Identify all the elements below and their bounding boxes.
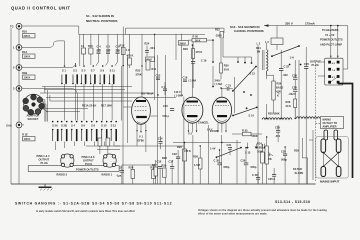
svg-text:C26: C26 (304, 62, 309, 66)
resistor R17 (101, 104, 112, 108)
svg-text:C 5: C 5 (106, 44, 111, 48)
resistor R28 (162, 156, 167, 160)
svg-text:S 7: S 7 (91, 69, 95, 73)
small parts row (81, 34, 93, 65)
resistor R24 (145, 42, 156, 57)
svg-text:R18: R18 (120, 44, 125, 48)
capacitor C21 (189, 79, 233, 91)
svg-text:S 1: S 1 (62, 69, 66, 73)
svg-text:R 20: R 20 (193, 34, 199, 38)
resistor R1E (22, 133, 35, 142)
svg-text:( 1·5MA: ( 1·5MA (174, 94, 183, 98)
switch S8 (91, 121, 98, 142)
svg-text:220 K: 220 K (24, 34, 31, 38)
resistor R36 (286, 99, 297, 118)
svg-text:R 33: R 33 (242, 129, 248, 133)
ground (39, 184, 53, 191)
svg-text:R27: R27 (152, 163, 157, 167)
resistor R1B (22, 71, 35, 80)
svg-text:C12: C12 (156, 74, 161, 78)
resistor R27 (152, 160, 157, 184)
input 3 (13, 86, 22, 92)
resistor R23 (136, 60, 151, 77)
capacitor C6 (115, 34, 120, 66)
svg-text:TR-EBLE: TR-EBLE (255, 146, 267, 150)
switch S12 (110, 121, 117, 142)
svg-text:R29: R29 (183, 47, 188, 51)
svg-text:470 K: 470 K (184, 149, 191, 153)
wire (19, 29, 24, 184)
svg-text:R28: R28 (162, 156, 167, 160)
svg-text:R36: R36 (286, 100, 291, 104)
resistor R21A (82, 104, 96, 108)
svg-text:S 4: S 4 (71, 124, 75, 128)
svg-text:1·4V: 1·4V (210, 147, 216, 151)
input TG (10, 23, 22, 29)
svg-text:In early models switch S12 and: In early models switch S12 and R, and sw… (36, 210, 135, 213)
switch S14 (232, 77, 258, 118)
resistor R24A (162, 164, 167, 178)
svg-text:BASS: BASS (276, 86, 283, 90)
wire (122, 48, 124, 184)
svg-text:C28: C28 (292, 86, 297, 90)
switch S1 (61, 65, 67, 84)
svg-text:S 9: S 9 (100, 69, 104, 73)
svg-text:S 10: S 10 (101, 124, 107, 128)
choke (262, 112, 292, 120)
inductor L2 (257, 42, 269, 80)
svg-text:EF86: EF86 (138, 139, 145, 143)
svg-text:·002: ·002 (283, 73, 289, 77)
wire (22, 63, 76, 68)
wire (309, 130, 313, 180)
switch S4 (71, 121, 78, 142)
output plug label (310, 60, 321, 68)
resistor R30 (220, 39, 230, 79)
resistor R36 (261, 145, 272, 184)
output plug radio2 (61, 154, 74, 167)
svg-text:C17: C17 (169, 160, 174, 164)
svg-text:C1: C1 (81, 44, 85, 48)
svg-text:1-H: 1-H (290, 56, 294, 60)
svg-text:C36: C36 (241, 159, 246, 163)
svg-text:390: 390 (97, 48, 102, 52)
wire (302, 138, 307, 184)
svg-text:60V 40mA: 60V 40mA (141, 92, 154, 96)
pot R34 treble (255, 137, 274, 184)
note early models (36, 210, 135, 213)
svg-text:V1 + V2: V1 + V2 (325, 33, 335, 37)
svg-text:100 K: 100 K (24, 76, 31, 80)
wire (316, 62, 332, 181)
label 14V (207, 128, 213, 132)
svg-text:GAA: GAA (6, 123, 12, 127)
svg-text:C 4: C 4 (97, 44, 102, 48)
svg-text:600p: 600p (224, 165, 230, 169)
resistor R29 (177, 143, 191, 185)
adaptor socket (23, 94, 45, 115)
svg-text:R39: R39 (294, 149, 299, 153)
switch S9 (99, 65, 105, 84)
svg-text:S 11: S 11 (110, 69, 116, 73)
wire (22, 26, 252, 66)
resistor R38 (193, 146, 202, 184)
svg-text:ADAPTOR: ADAPTOR (27, 114, 40, 118)
svg-text:C31: C31 (227, 143, 232, 147)
svg-text:OUTPUT: OUTPUT (310, 60, 321, 64)
wire (330, 26, 348, 69)
svg-text:R26: R26 (177, 145, 182, 149)
wire (65, 66, 122, 121)
svg-text:C38: C38 (292, 74, 297, 78)
svg-text:OUTLET TO: OUTLET TO (323, 121, 338, 125)
wire (165, 55, 167, 184)
svg-text:CANCEL POSITIONS: CANCEL POSITIONS (234, 29, 264, 33)
svg-text:R2b: R2b (162, 164, 167, 168)
label RADIO 1 (102, 172, 113, 176)
resistor R22A (106, 138, 110, 154)
wire (173, 142, 241, 144)
wire (221, 135, 223, 184)
svg-text:R1A: R1A (22, 50, 27, 54)
svg-text:S 14: S 14 (249, 114, 255, 118)
plug label pins (37, 154, 51, 165)
svg-text:340V: 340V (215, 79, 221, 83)
capacitor C30 (281, 147, 287, 184)
svg-text:S 5: S 5 (82, 69, 86, 73)
svg-text:R11: R11 (152, 67, 157, 71)
switch S13 (232, 66, 257, 92)
resistor R20 (188, 34, 213, 42)
switch S6 (81, 121, 88, 142)
svg-text:OUTPUT: OUTPUT (39, 158, 50, 162)
svg-text:PLUG: PLUG (312, 63, 319, 67)
wire (22, 89, 78, 121)
svg-text:370K: 370K (136, 73, 142, 77)
wire (181, 34, 183, 96)
svg-text:S 12: S 12 (111, 124, 117, 128)
wire (192, 135, 194, 184)
svg-text:C18: C18 (183, 76, 188, 80)
HT rail (264, 24, 348, 27)
svg-text:V 1: V 1 (139, 135, 143, 139)
note S13-S16 (230, 25, 264, 33)
label 1H (290, 56, 294, 60)
svg-text:S 2B: S 2B (61, 124, 67, 128)
svg-text:RADIO 1: RADIO 1 (102, 172, 113, 176)
capacitor C14 (158, 136, 163, 149)
mains input pins bottom (321, 167, 341, 177)
resistor R22 (215, 28, 224, 39)
svg-text:C 29: C 29 (252, 173, 258, 177)
wire (141, 33, 143, 35)
svg-text:S 8: S 8 (91, 124, 95, 128)
svg-text:RADIO 2: RADIO 2 (57, 172, 68, 176)
wire (40, 87, 176, 112)
wire (127, 55, 129, 143)
label 60V 40mA (141, 92, 154, 96)
svg-text:R17 10M: R17 10M (101, 104, 112, 108)
svg-text:AMPLIFIER: AMPLIFIER (323, 125, 337, 129)
wire (40, 87, 50, 122)
capacitor C22 (279, 50, 290, 118)
svg-text:C28: C28 (275, 126, 280, 130)
svg-text:PLUG: PLUG (85, 162, 92, 166)
wire (175, 34, 177, 60)
wire (86, 145, 184, 147)
svg-text:R41: R41 (256, 46, 261, 50)
svg-text:S 3: S 3 (73, 69, 77, 73)
input GAA (6, 122, 22, 128)
svg-text:R30: R30 (224, 64, 229, 68)
svg-text:1M: 1M (257, 50, 261, 54)
svg-text:470 K: 470 K (196, 50, 203, 54)
switch S18 (271, 45, 301, 65)
heavy cable (338, 84, 353, 179)
wire (213, 40, 252, 86)
plug2 label (82, 155, 96, 166)
inductor L3 (265, 26, 283, 50)
capacitor C25 (268, 168, 276, 184)
svg-text:FILTER: FILTER (293, 167, 302, 171)
resistor R33 (232, 129, 262, 139)
choke2 (296, 117, 320, 119)
svg-text:POWER OUTLETS: POWER OUTLETS (320, 38, 343, 42)
svg-text:MAINS: MAINS (323, 118, 332, 122)
capacitor C35 (214, 150, 230, 184)
mains input label (320, 180, 340, 184)
svg-text:500 p: 500 p (163, 114, 170, 118)
adaptor socket label (27, 114, 40, 122)
switch S5 (81, 65, 87, 84)
svg-text:NEUTRAL POSITIONS: NEUTRAL POSITIONS (86, 19, 117, 23)
svg-text:R22: R22 (215, 28, 220, 32)
label 1.4V (210, 147, 216, 151)
capacitor C5 (106, 34, 111, 66)
svg-text:100 K: 100 K (24, 137, 31, 141)
svg-text:R16: R16 (22, 30, 27, 34)
wire (318, 62, 325, 76)
svg-text:S1 - S12 SHOWN IN: S1 - S12 SHOWN IN (86, 14, 114, 18)
svg-text:TG: TG (10, 25, 14, 29)
svg-text:POWER OUTLETS: POWER OUTLETS (76, 167, 99, 171)
switch S10 (101, 121, 108, 142)
svg-text:( 1 MA: ( 1 MA (215, 82, 223, 86)
svg-text:S 2A: S 2A (52, 124, 58, 128)
output plug (325, 58, 343, 85)
label filter slope (293, 167, 304, 175)
input 1 (13, 45, 22, 51)
output plug radio1 (103, 154, 116, 167)
svg-text:·1µa: ·1µa (116, 174, 122, 178)
svg-text:·3300: ·3300 (215, 34, 222, 38)
svg-text:PLUG: PLUG (41, 161, 48, 165)
capacitor C29 (252, 172, 260, 184)
valve V1 EF86 (123, 97, 158, 133)
resistor R25 (150, 165, 155, 184)
svg-text:R1B: R1B (22, 71, 27, 75)
valve V2a label (188, 132, 192, 136)
switch S15 (216, 143, 266, 159)
mains input pins top (321, 139, 341, 153)
capacitor C12 (156, 74, 161, 80)
switch S7 (90, 65, 96, 84)
svg-text:50 K: 50 K (224, 68, 230, 72)
svg-text:R38: R38 (193, 155, 198, 159)
svg-text:C 21: C 21 (226, 83, 232, 87)
svg-text:100 K: 100 K (24, 55, 31, 59)
svg-text:SWITCH GANGING :- S1-S2A-S2B: SWITCH GANGING :- S1-S2A-S2B S3-S4 S5-S6… (15, 202, 172, 206)
label 260V (179, 41, 189, 52)
svg-text:L 3: L 3 (265, 40, 269, 44)
svg-text:C 35: C 35 (214, 159, 220, 163)
bottom rail (11, 183, 316, 185)
svg-text:·002 F: ·002 F (289, 92, 297, 96)
svg-text:40p: 40p (116, 48, 121, 52)
svg-text:V 2: V 2 (188, 132, 192, 136)
svg-text:14 V: 14 V (207, 128, 213, 132)
capacitor C26 (289, 47, 310, 184)
svg-text:K: K (277, 94, 279, 98)
mains outlet label (321, 117, 344, 129)
svg-text:C20: C20 (163, 104, 168, 108)
svg-text:150: 150 (277, 90, 282, 94)
svg-text:330 V: 330 V (285, 22, 293, 26)
svg-text:QUAD II CONTROL UNIT: QUAD II CONTROL UNIT (11, 6, 71, 11)
switch S2B (61, 121, 68, 142)
capacitor C9 (162, 82, 168, 95)
resistor R26 (129, 165, 135, 184)
left frame wire (10, 28, 12, 184)
capacitor C13 (98, 138, 102, 154)
capacitor C18 (183, 76, 188, 82)
mains crossover wires (322, 152, 339, 168)
svg-text:1·5M: 1·5M (194, 163, 200, 167)
wire (97, 149, 120, 151)
svg-text:R23: R23 (136, 69, 141, 73)
wire (154, 34, 156, 100)
svg-text:S 6: S 6 (81, 124, 85, 128)
note S1-S12 (86, 14, 117, 23)
note voltages (198, 209, 327, 215)
svg-text:560K: 560K (252, 134, 258, 138)
resistor R32 (192, 42, 203, 61)
wire (157, 55, 159, 184)
svg-text:effect of the meter used when: effect of the meter used when measuremen… (198, 212, 268, 215)
input 2 (13, 65, 22, 71)
svg-text:R21A 22·1K: R21A 22·1K (82, 104, 96, 108)
resistor R11 (152, 67, 157, 71)
svg-text:R35 100K: R35 100K (268, 112, 280, 116)
label 140V (174, 90, 183, 98)
valve V2b label (210, 129, 219, 133)
svg-text:SOCKET: SOCKET (28, 117, 39, 121)
resistor R19 (127, 34, 134, 68)
svg-text:260V: 260V (180, 41, 186, 45)
svg-text:500p: 500p (281, 158, 287, 162)
wire (122, 164, 155, 166)
switch S3 (72, 65, 78, 84)
title (11, 6, 71, 11)
switch ganging text (15, 200, 310, 206)
svg-text:OUTPUT: OUTPUT (83, 159, 94, 163)
svg-text:S13-S14 - S15-S16: S13-S14 - S15-S16 (275, 200, 310, 204)
wire (257, 45, 259, 184)
svg-text:C 19: C 19 (201, 59, 207, 63)
resistor R1A (22, 50, 35, 59)
wire (56, 142, 121, 151)
svg-text:PINS 3 & 6: PINS 3 & 6 (82, 155, 96, 159)
svg-text:600p: 600p (251, 165, 257, 169)
wire (22, 41, 65, 65)
capacitor C15 (116, 165, 124, 184)
label 340V 1MA (215, 79, 223, 87)
svg-text:C16: C16 (157, 160, 162, 164)
svg-text:R24: R24 (145, 42, 150, 46)
svg-text:C30: C30 (281, 150, 286, 154)
mains outlet pins (324, 130, 338, 140)
svg-text:L 2: L 2 (257, 42, 261, 46)
power outlets box (28, 166, 119, 172)
svg-text:30 K: 30 K (286, 104, 292, 108)
valve V2a (182, 45, 203, 133)
capacitor C31 (227, 143, 233, 155)
wire (298, 60, 300, 184)
label 330V 175mA (285, 22, 316, 26)
svg-text:140 V: 140 V (174, 90, 181, 94)
wire (137, 34, 146, 152)
switch S11 (109, 65, 116, 84)
switch S2A (52, 121, 59, 142)
svg-text:MAINS INPUT: MAINS INPUT (320, 180, 340, 184)
wire (183, 97, 185, 184)
capacitor C32 (172, 150, 180, 184)
svg-text:R 1E: R 1E (22, 133, 28, 137)
capacitor C38 (292, 74, 297, 80)
svg-text:C32: C32 (172, 152, 177, 156)
svg-text:50 K: 50 K (195, 38, 201, 42)
capacitor C19 (191, 59, 207, 89)
svg-text:C 22: C 22 (284, 65, 290, 69)
svg-text:AND PILOT LAMP: AND PILOT LAMP (320, 42, 342, 46)
capacitor C28 (292, 60, 297, 119)
svg-text:PINS 1 & 4: PINS 1 & 4 (37, 154, 51, 158)
label R39 (294, 149, 299, 153)
note to heaters (320, 28, 343, 46)
valve V1 label (138, 135, 145, 143)
svg-text:175mA: 175mA (305, 22, 316, 26)
capacitor C28 (275, 125, 281, 142)
wire (236, 140, 238, 184)
capacitor C16 (157, 160, 163, 185)
label CANCEL (198, 121, 209, 125)
wire (208, 125, 210, 184)
label RADIO 2 (57, 172, 68, 176)
contact dots (212, 61, 252, 96)
svg-text:TO HEATERS: TO HEATERS (322, 28, 339, 32)
svg-text:390: 390 (106, 48, 111, 52)
resistor R18 (120, 27, 131, 66)
svg-text:CANCEL: CANCEL (198, 121, 209, 125)
capacitor C20 (163, 104, 175, 118)
capacitor C17 (169, 160, 175, 185)
svg-text:R38: R38 (277, 82, 282, 86)
capacitor C4 (96, 34, 101, 66)
capacitor C36 (241, 148, 257, 184)
pot R38 bass (267, 71, 284, 118)
mains input outline (316, 137, 349, 179)
valve V2b (212, 88, 231, 133)
